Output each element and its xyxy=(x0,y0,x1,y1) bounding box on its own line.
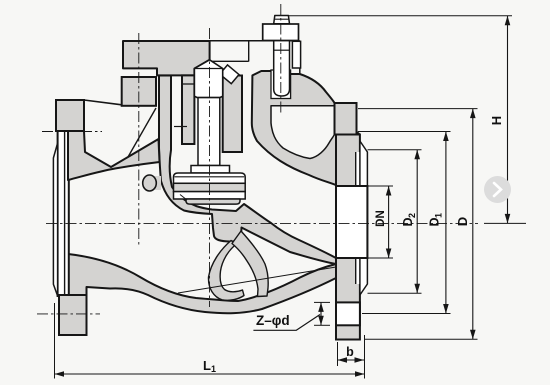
svg-text:1: 1 xyxy=(434,213,444,218)
svg-text:b: b xyxy=(346,345,354,359)
svg-text:1: 1 xyxy=(211,364,216,374)
svg-text:L: L xyxy=(203,358,211,373)
svg-text:D: D xyxy=(455,217,470,226)
svg-text:DN: DN xyxy=(375,210,387,227)
svg-text:H: H xyxy=(489,116,504,125)
svg-text:2: 2 xyxy=(407,213,417,218)
svg-text:Z–φd: Z–φd xyxy=(256,313,290,328)
